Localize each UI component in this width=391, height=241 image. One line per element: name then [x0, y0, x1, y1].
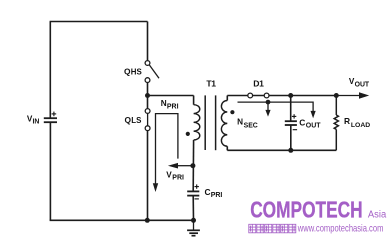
svg-text:www.compotechasia.com: www.compotechasia.com — [297, 224, 383, 235]
svg-text:R: R — [344, 116, 350, 126]
current arrow secondary rail — [238, 102, 314, 111]
wire bottom rail — [50, 219, 194, 221]
svg-text:N: N — [237, 118, 243, 127]
svg-text:T1: T1 — [206, 79, 216, 89]
transistor QHS switch — [145, 61, 159, 83]
capacitor CPRI — [187, 191, 199, 195]
wire QHS drop — [147, 22, 149, 61]
diode D1 ideal-switch contacts — [248, 93, 269, 98]
svg-text:OUT: OUT — [306, 122, 322, 129]
wire primary top lead — [193, 96, 195, 105]
wire switch node — [147, 83, 149, 109]
svg-text:C: C — [205, 187, 211, 197]
node RLOAD top junction — [334, 93, 339, 98]
plus sign CPRI — [195, 184, 199, 188]
wire node to primary — [148, 95, 194, 97]
ground — [187, 220, 200, 235]
svg-text:COMPOTECH: COMPOTECH — [250, 197, 362, 223]
wire battery bottom to ground rail — [49, 123, 51, 221]
watermark COMPOTECH Asia — [250, 197, 387, 223]
svg-text:Asia: Asia — [368, 210, 387, 221]
primary polarity dot — [186, 132, 190, 136]
svg-text:OUT: OUT — [355, 82, 370, 89]
wire secondary bottom rail — [227, 149, 336, 151]
node COUT bottom junction — [288, 148, 293, 153]
svg-text:LS: LS — [131, 116, 141, 125]
watermark CJK line — [249, 224, 296, 233]
minus sign COUT — [293, 129, 297, 131]
transistor QLS switch — [145, 109, 150, 131]
node QLS ground junction — [145, 218, 150, 223]
capacitor COUT — [290, 96, 292, 151]
resistor RLOAD — [334, 96, 338, 151]
wire primary bottom lead to C_PRI — [192, 140, 194, 191]
wire QLS to ground rail — [147, 131, 149, 221]
current arrow head into COUT — [265, 110, 270, 117]
transformer T1 secondary winding NSEC — [221, 101, 227, 147]
svg-text:LOAD: LOAD — [351, 122, 370, 129]
wire C_PRI bottom to rail — [192, 196, 194, 221]
transformer T1 primary winding NPRI — [194, 105, 200, 140]
svg-text:SEC: SEC — [244, 122, 258, 129]
wire top horizontal — [50, 21, 148, 23]
secondary polarity dot — [230, 110, 234, 114]
svg-text:HS: HS — [131, 68, 142, 77]
wire secondary top lead — [226, 96, 228, 101]
plus sign COUT — [292, 114, 296, 118]
node secondary current dot — [266, 100, 271, 105]
plus sign VIN — [52, 112, 57, 117]
transformer T1 core — [205, 95, 215, 150]
node CPRI ground junction — [191, 218, 196, 223]
voltage arrow VPRI — [178, 165, 193, 167]
svg-text:C: C — [299, 118, 305, 128]
current loop arrow primary — [156, 114, 178, 184]
minus sign CPRI — [195, 198, 199, 200]
svg-text:IN: IN — [33, 119, 40, 126]
wire left vertical — [49, 22, 51, 119]
wire secondary top rail — [227, 95, 336, 97]
svg-text:N: N — [161, 99, 167, 108]
node VPRI junction — [190, 163, 195, 168]
svg-text:V: V — [166, 170, 172, 179]
node switch-node junction — [145, 93, 150, 98]
svg-text:D1: D1 — [253, 79, 264, 89]
voltage arrow VOUT — [336, 95, 359, 97]
svg-text:PRI: PRI — [167, 104, 179, 111]
wire secondary bottom lead — [226, 146, 228, 150]
node COUT top junction — [288, 93, 293, 98]
svg-text:PRI: PRI — [172, 175, 184, 182]
current arrow head into RLOAD — [311, 111, 316, 118]
capacitor VIN source — [44, 118, 57, 122]
svg-text:PRI: PRI — [211, 192, 223, 199]
